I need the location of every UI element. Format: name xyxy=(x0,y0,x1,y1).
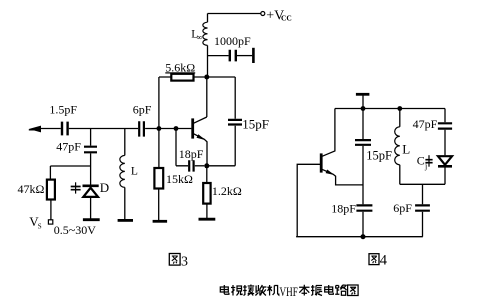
wire 1.2k bottom lead xyxy=(206,204,208,219)
wire collector fig4 xyxy=(322,109,335,157)
wire collector vertical xyxy=(206,77,208,117)
char 机 xyxy=(267,285,278,296)
wire 18pF drop xyxy=(176,129,188,166)
wire 6pF top lead fig4 xyxy=(422,184,424,204)
inductor L fig4 xyxy=(399,109,401,127)
wire 47k top lead xyxy=(49,166,51,180)
wire base xyxy=(145,128,191,130)
wire top rail fig4 xyxy=(335,108,445,110)
svg-text:6pF: 6pF xyxy=(393,201,412,215)
svg-text:VHF: VHF xyxy=(280,285,298,299)
wire base to 15k xyxy=(158,129,160,169)
transistor Q1 emitter with arrow xyxy=(194,134,207,166)
svg-text:47pF: 47pF xyxy=(56,140,81,154)
wire varactor to ground xyxy=(90,198,92,219)
svg-text:6pF: 6pF xyxy=(133,102,152,116)
capacitor 15pF fig3 xyxy=(234,77,236,166)
wire 1.2k top lead xyxy=(206,166,208,183)
transistor Q2 emitter with arrow xyxy=(322,169,363,185)
char 图 (third) xyxy=(348,285,359,296)
resistor R 15k box xyxy=(154,168,163,189)
terminal Vs square xyxy=(48,220,52,224)
char 电 xyxy=(220,285,229,294)
resistor R 5.6k box xyxy=(171,74,193,81)
capacitor 6pF fig4 xyxy=(415,205,430,210)
svg-text:C: C xyxy=(417,154,425,168)
svg-text:∞: ∞ xyxy=(197,33,203,42)
char 振 xyxy=(311,285,322,296)
capacitor 47pF plates xyxy=(84,147,97,153)
wire node to 15pF column xyxy=(207,76,235,78)
wire mid rail fig4 xyxy=(400,183,445,185)
wire 1000pF right lead xyxy=(237,55,252,57)
char 电 (second) xyxy=(325,285,334,294)
char 本 xyxy=(299,285,309,296)
wire 47pF to varactor xyxy=(90,153,92,184)
svg-text:4: 4 xyxy=(380,253,388,269)
node base-18pF dot xyxy=(174,126,179,131)
wire base fig4 to bottom rail xyxy=(297,164,321,236)
varactor capacitance mark xyxy=(75,182,77,193)
ground under varactor xyxy=(83,218,100,221)
ground under 15k xyxy=(153,220,168,223)
node base-bias dot xyxy=(157,126,162,131)
wire 47pF drop xyxy=(90,129,92,146)
transistor Q1 base bar xyxy=(191,118,194,138)
wire 15k bottom lead xyxy=(158,189,160,221)
svg-text:L: L xyxy=(402,142,410,157)
wire Vcc top rail xyxy=(208,13,261,15)
capacitor 1.5pF plates xyxy=(62,122,68,136)
ground under L fig3 xyxy=(118,219,133,222)
varactor Cj cathode bar xyxy=(438,165,452,168)
svg-text:1000pF: 1000pF xyxy=(214,34,251,48)
resistor R 47k box xyxy=(47,180,55,200)
wire bias vertical 5.6k to base xyxy=(158,77,160,129)
svg-text:15pF: 15pF xyxy=(242,117,269,132)
svg-text:15kΩ: 15kΩ xyxy=(166,172,193,186)
wire 47pF to varactor fig4 xyxy=(444,130,446,156)
wire emitter junction to 15pF bottom xyxy=(207,165,235,167)
FIG4 xyxy=(296,94,452,239)
wire 47k horizontal xyxy=(50,165,90,167)
capacitor 1000pF plates xyxy=(230,50,236,62)
wire main input line xyxy=(41,128,138,130)
varactor D cathode bar xyxy=(83,185,99,188)
capacitor 15pF fig4 xyxy=(362,109,364,140)
wire 47k bottom lead xyxy=(50,200,52,220)
svg-text:47kΩ: 47kΩ xyxy=(18,182,45,196)
capacitor 6pF plates xyxy=(139,121,144,136)
inductor L fig3 xyxy=(124,129,126,156)
char 视 xyxy=(231,285,242,296)
wire 47pF top lead fig4 xyxy=(444,109,446,123)
terminal bar right of 1000pF xyxy=(252,48,255,63)
wire inductor bottom to node xyxy=(207,45,209,76)
transistor Q1 collector diagonal xyxy=(194,117,207,123)
wire 6pF bottom lead xyxy=(422,212,424,237)
char 收 xyxy=(255,285,266,296)
char 接 xyxy=(243,285,254,296)
svg-text:15pF: 15pF xyxy=(366,149,392,163)
ground top fig4 xyxy=(356,93,370,96)
wire 5.6k leads xyxy=(159,76,204,78)
inductor L-infinity vertical with coil xyxy=(207,14,209,23)
svg-text:L: L xyxy=(131,166,138,178)
wire 1000pF branch xyxy=(208,55,229,57)
svg-text:3: 3 xyxy=(181,254,188,269)
ground under 1.2k xyxy=(199,218,216,221)
output arrow left xyxy=(29,126,41,133)
svg-text:1.5pF: 1.5pF xyxy=(49,102,77,116)
transistor Q2 base bar xyxy=(320,153,323,172)
main caption 电视接收机VHF本振电路图 xyxy=(220,285,358,296)
node rail-15pF dot xyxy=(361,106,366,111)
wire bottom rail fig4 xyxy=(296,236,423,238)
svg-text:18pF: 18pF xyxy=(331,202,356,216)
node collector-supply junction dot xyxy=(204,75,209,80)
svg-text:j: j xyxy=(424,162,427,171)
wire varactor to mid rail xyxy=(444,166,446,184)
label fig4 caption 图4 xyxy=(369,254,379,265)
char 路 xyxy=(335,285,346,295)
terminal +Vcc circle xyxy=(261,12,265,16)
varactor Cj triangle (pointing down) xyxy=(438,156,452,165)
svg-text:18pF: 18pF xyxy=(179,147,204,161)
svg-text:S: S xyxy=(38,223,42,231)
varactor Cj capacitance mark xyxy=(428,155,430,167)
capacitor 47pF fig4 xyxy=(438,123,452,128)
node bottom rail dot xyxy=(361,234,366,239)
svg-text:D: D xyxy=(100,180,109,195)
node emitter junction dot xyxy=(204,163,209,168)
varactor D triangle xyxy=(83,188,98,197)
capacitor 18pF fig4 xyxy=(356,205,372,210)
capacitor 18pF plates xyxy=(189,160,193,171)
svg-text:0.5~30V: 0.5~30V xyxy=(54,223,96,237)
svg-text:47pF: 47pF xyxy=(413,117,438,131)
svg-text:1.2kΩ: 1.2kΩ xyxy=(212,184,242,198)
label fig3 caption 图3 xyxy=(169,254,180,266)
CJK glyphs drawn as strokes xyxy=(169,253,387,270)
node rail-L dot xyxy=(397,106,402,111)
resistor R 1.2k box xyxy=(203,183,210,204)
wire 18pF right lead xyxy=(195,165,205,167)
svg-text:CC: CC xyxy=(281,13,292,22)
svg-text:5.6kΩ: 5.6kΩ xyxy=(165,60,195,74)
